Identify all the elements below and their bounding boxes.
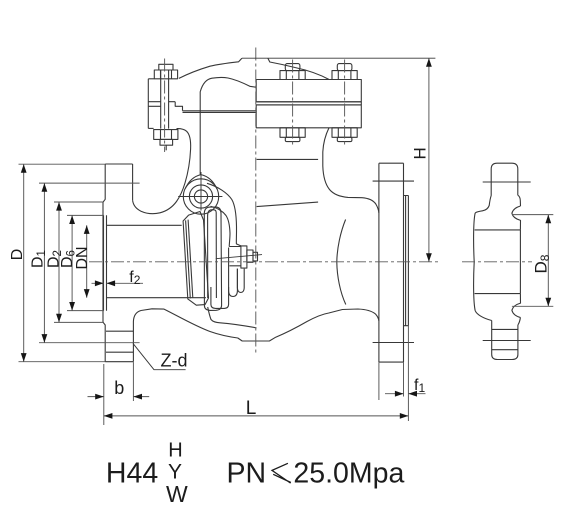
DN arrows — [84, 225, 90, 234]
side view lower flare right — [518, 318, 521, 326]
left flange top edge — [105, 163, 132, 165]
right flange bolt lines — [373, 181, 414, 342]
shoulder bottom tilted line right — [257, 202, 319, 207]
left flange back upper — [132, 164, 134, 200]
side view right notch top — [512, 206, 521, 230]
svg-text:f2: f2 — [129, 269, 140, 287]
D8 arrows — [545, 215, 551, 224]
H arrows — [426, 58, 432, 67]
svg-text:D: D — [9, 249, 26, 261]
disc holder hook outer — [204, 207, 221, 310]
side view top neck — [491, 163, 518, 195]
f1/L extension — [379, 326, 409, 421]
svg-text:Z-d: Z-d — [161, 351, 188, 371]
D6 dimension line — [71, 215, 73, 310]
leq symbol strokes — [272, 463, 291, 483]
svg-text:H: H — [168, 439, 182, 461]
arm-stud step line — [229, 247, 241, 266]
D8 dimension line — [547, 215, 549, 307]
D dimension line — [23, 164, 25, 362]
f2 arrows — [95, 280, 104, 286]
left bolt top nut — [154, 70, 177, 79]
left bolt top cap — [159, 64, 173, 70]
D1 arrows — [42, 183, 48, 192]
arm lower tab 1 — [229, 248, 238, 297]
side view bottom neck — [492, 321, 518, 360]
D extension lines — [19, 164, 106, 362]
svg-text:H: H — [411, 147, 430, 159]
D1 extension lines — [39, 183, 140, 343]
hinge pin inner circle — [194, 190, 207, 203]
side view mid body right edge — [519, 230, 521, 294]
body armpit U curve left — [133, 129, 191, 214]
side view right notch bottom — [512, 294, 521, 318]
b extension — [132, 362, 134, 401]
right flange top edge — [379, 162, 404, 164]
svg-text:L: L — [246, 398, 257, 419]
f1 dimension lines — [385, 393, 426, 395]
svg-text:W: W — [166, 481, 188, 507]
hinge crosshair — [178, 172, 222, 211]
D2 dimension line — [58, 202, 60, 322]
left flange face profile — [103, 164, 105, 362]
b dimension line — [88, 396, 150, 398]
side view top bolt line — [483, 181, 531, 183]
bore top line — [106, 224, 182, 226]
right bolt 1 axis — [292, 60, 294, 147]
left flange gasket face double line — [104, 215, 107, 311]
hanger foot — [211, 287, 229, 308]
bonnet/body joint double line — [183, 111, 256, 113]
disc inner parallel lines — [186, 220, 193, 299]
swing arm outer edge — [207, 183, 241, 246]
right bonnet flange top plate — [256, 80, 361, 102]
swing arm inner edge — [211, 206, 231, 246]
D arrows — [21, 164, 27, 173]
D6 arrows — [69, 215, 75, 224]
shoulder top line right — [257, 158, 319, 160]
svg-text:H44: H44 — [106, 457, 158, 489]
svg-text:D8: D8 — [532, 254, 553, 273]
D2 arrows — [56, 202, 62, 211]
seat ring lower edge — [208, 307, 257, 328]
right bolt 2 bottom — [332, 128, 357, 138]
D8 extension lines — [512, 215, 553, 307]
D6 extension lines — [67, 215, 104, 310]
right bolt 1 bottom — [280, 128, 305, 138]
right bolt 1 top — [285, 64, 300, 71]
side view mid top line — [475, 229, 521, 231]
side view upper flare left — [475, 196, 491, 213]
side view lower flare left — [475, 311, 492, 321]
svg-text:b: b — [114, 378, 124, 398]
side view centerline — [462, 261, 532, 263]
bonnet flange left section: left edge — [147, 79, 149, 129]
bonnet flange left: top edge — [148, 78, 154, 80]
disc stud tip — [253, 252, 258, 261]
disc (clapper) slab — [183, 212, 208, 306]
L dimension line — [104, 415, 409, 417]
svg-text:DN: DN — [74, 246, 91, 269]
H top extension line — [242, 57, 436, 59]
neck inner wall left — [199, 92, 201, 175]
left bolt axis — [164, 59, 166, 153]
hinge boss outer circle — [183, 179, 218, 214]
side view mid bottom line — [475, 293, 521, 295]
right bolt 2 axis — [344, 60, 346, 147]
b arrows — [95, 394, 104, 400]
outer dome top — [179, 58, 329, 79]
side view bottom inner lines — [492, 329, 518, 349]
D1 dimension line — [43, 183, 45, 343]
disc stud — [247, 250, 253, 262]
L arrows — [104, 413, 113, 419]
side view mid body left edge — [474, 213, 476, 311]
side view upper flare right — [518, 195, 521, 206]
hinge pin middle circle — [189, 185, 212, 208]
svg-text:PN: PN — [227, 458, 267, 490]
f2 dimension lines — [92, 282, 144, 284]
svg-text:25.0Mpa: 25.0Mpa — [293, 458, 404, 490]
right flange raised face lines — [406, 196, 409, 326]
left bolt bottom cap — [160, 139, 173, 145]
horizontal centerline main view — [89, 261, 441, 263]
left face extension to L — [103, 364, 105, 425]
right bolt 2 top — [337, 64, 352, 71]
left bolt shaft — [161, 70, 169, 129]
disc holder hook inner — [208, 210, 217, 298]
right flange back — [403, 163, 405, 362]
D2 extension lines — [54, 202, 103, 322]
DN dimension line — [86, 225, 88, 297]
bore bottom line — [106, 297, 206, 299]
bonnet joint left — [148, 102, 182, 111]
left bolt bottom nut — [154, 130, 178, 140]
Z-d leader — [133, 343, 186, 369]
right bonnet flange bottom plate — [256, 105, 361, 128]
inner dome line — [200, 77, 256, 91]
svg-text:f1: f1 — [414, 377, 425, 395]
left flange bolt hole lines bottom — [106, 331, 133, 352]
right flange bottom edge — [379, 361, 404, 363]
bonnet flange left: bottom edge — [148, 127, 153, 129]
stud axis line — [216, 255, 262, 259]
left flange bottom edge — [105, 361, 133, 363]
neck right outer wall — [323, 128, 379, 213]
f1 arrows — [395, 391, 404, 397]
hinge boss pointed arch — [185, 175, 217, 189]
right flange raised face top/bottom — [404, 196, 409, 326]
left flange back lower — [132, 322, 134, 362]
arm lower tab 2 — [237, 269, 244, 293]
right bonnet flange gap lines — [256, 102, 361, 105]
vertical centerline main view — [255, 48, 257, 354]
right flange face — [378, 163, 380, 362]
mid-body silhouette arc right — [337, 220, 346, 305]
side view bottom bolt line — [483, 340, 531, 342]
body bottom outline — [133, 309, 379, 341]
disc stud washer — [241, 246, 247, 268]
H dimension line — [428, 58, 430, 262]
